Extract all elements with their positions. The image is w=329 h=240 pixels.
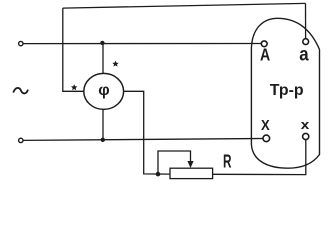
wire phase-meter top lead: [102, 43, 104, 74]
rheostat wiper arrowhead: [187, 161, 193, 168]
junction dot at bottom bus / meter lead: [101, 138, 105, 142]
AC source tilde symbol: [13, 88, 28, 93]
svg-text:A: A: [260, 45, 271, 65]
wire left riser (voltage coil tap): [63, 8, 84, 91]
svg-text:R: R: [223, 151, 232, 171]
svg-text:x: x: [301, 117, 310, 132]
wire rheostat wiper loop: [158, 151, 191, 174]
svg-text:φ: φ: [98, 82, 109, 99]
star polarity mark (voltage coil): [112, 61, 118, 67]
AC source terminal (top): [19, 41, 23, 45]
svg-text:a: a: [299, 43, 309, 65]
transformer terminal x: [303, 133, 309, 139]
wire bottom line: source to terminal X: [23, 139, 262, 141]
transformer Tp-p body: [251, 18, 319, 168]
star polarity mark (current coil): [71, 84, 77, 90]
junction dot at rheostat left / wiper loop: [156, 172, 161, 177]
wire rheostat to terminal x: [213, 140, 306, 175]
junction dot at A-wire / meter tap: [100, 41, 104, 45]
phase meter U1 (phi) body: [84, 73, 124, 109]
AC source terminal (bottom): [19, 138, 23, 142]
svg-text:Тр-р: Тр-р: [270, 82, 304, 99]
transformer terminal a: [303, 39, 309, 45]
wire phase-meter bottom lead: [102, 109, 104, 140]
transformer terminal A: [261, 41, 267, 47]
wire top bus from left riser to a-drop: [63, 3, 306, 8]
rheostat R body: [170, 168, 213, 178]
transformer terminal X: [263, 135, 270, 142]
wire a-drop into transformer: [305, 3, 307, 38]
wire phase-meter right lead down to rheostat: [124, 91, 170, 174]
svg-text:X: X: [261, 118, 270, 134]
wire top line: source to terminal A: [23, 43, 260, 45]
